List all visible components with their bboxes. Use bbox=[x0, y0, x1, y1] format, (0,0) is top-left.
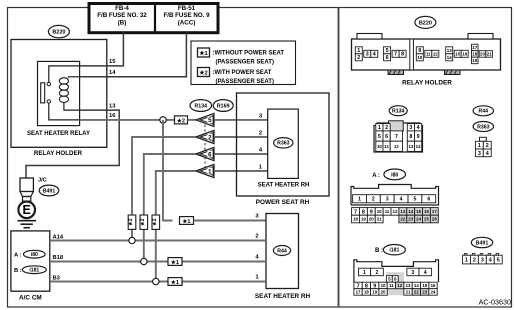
svg-text:19: 19 bbox=[472, 58, 477, 63]
svg-text:13: 13 bbox=[400, 209, 405, 214]
svg-text:5: 5 bbox=[413, 197, 416, 203]
svg-text:J/C: J/C bbox=[38, 178, 47, 184]
svg-text:25: 25 bbox=[424, 217, 429, 222]
wire pin16 feed bbox=[80, 119, 163, 121]
svg-text:4: 4 bbox=[486, 151, 489, 157]
connector oval R169 bbox=[213, 100, 233, 112]
relay internal wiring bbox=[49, 66, 80, 83]
wire B18 to seat heaters pin4 bbox=[50, 261, 266, 263]
svg-text:B :: B : bbox=[14, 268, 22, 274]
svg-text:R134: R134 bbox=[194, 103, 207, 109]
svg-text:FB-51: FB-51 bbox=[178, 5, 196, 12]
wire B3 to seat heaters pin1 bbox=[50, 281, 266, 283]
svg-text:18: 18 bbox=[364, 290, 369, 295]
svg-text:10: 10 bbox=[417, 55, 422, 60]
svg-text:A/C CM: A/C CM bbox=[19, 295, 42, 302]
svg-text:POWER SEAT RH: POWER SEAT RH bbox=[256, 199, 310, 206]
svg-text:i80: i80 bbox=[391, 172, 398, 178]
connector B491 pin map bbox=[463, 255, 471, 264]
connector oval B491 left bbox=[39, 185, 59, 196]
svg-text::WITHOUT POWER SEAT: :WITHOUT POWER SEAT bbox=[213, 51, 285, 57]
svg-text:5: 5 bbox=[386, 48, 389, 54]
svg-text:26: 26 bbox=[432, 217, 437, 222]
svg-text:20: 20 bbox=[381, 290, 386, 295]
svg-text::WITH POWER SEAT: :WITH POWER SEAT bbox=[213, 70, 272, 76]
svg-text:★2: ★2 bbox=[177, 118, 185, 125]
svg-text:(PASSENGER SEAT): (PASSENGER SEAT) bbox=[216, 60, 274, 66]
svg-text:3: 3 bbox=[366, 52, 369, 58]
svg-text:5: 5 bbox=[497, 257, 500, 263]
connector oval B491 right bbox=[471, 237, 492, 247]
svg-text:AC-03630: AC-03630 bbox=[479, 298, 511, 307]
svg-text:B :: B : bbox=[375, 248, 383, 254]
wire pin13 to joint connector bbox=[26, 110, 119, 178]
connector oval i80 left bbox=[24, 250, 46, 258]
wire pin6 branch bbox=[214, 153, 268, 155]
svg-text:R169: R169 bbox=[217, 103, 230, 109]
svg-text:6: 6 bbox=[427, 197, 430, 203]
svg-text:16: 16 bbox=[424, 209, 429, 214]
star1 box on B18 wire bbox=[168, 258, 182, 266]
connector oval R134 bbox=[190, 100, 212, 112]
connector pin 6 triangle bbox=[196, 147, 214, 160]
wire pin5 to seat heater RH pin3 bbox=[214, 119, 268, 121]
svg-text:★1: ★1 bbox=[171, 259, 179, 266]
svg-text:1: 1 bbox=[465, 257, 468, 263]
wire junction drop to R44 pin3 bbox=[163, 120, 173, 221]
svg-text:4: 4 bbox=[424, 270, 427, 276]
svg-text:B220: B220 bbox=[419, 20, 432, 26]
connector pin 2 triangle bbox=[196, 130, 214, 143]
svg-text:1: 1 bbox=[378, 125, 381, 131]
svg-text:4: 4 bbox=[400, 197, 403, 203]
star2 box on branch A bbox=[128, 215, 136, 229]
svg-text:24: 24 bbox=[431, 290, 436, 295]
svg-text:SEAT HEATER RH: SEAT HEATER RH bbox=[255, 293, 311, 300]
svg-text:B220: B220 bbox=[52, 30, 65, 36]
svg-text:12: 12 bbox=[433, 51, 438, 56]
connector pin 1 triangle bbox=[196, 164, 214, 177]
seat heater relay box bbox=[38, 61, 80, 125]
wire pin2 branch bbox=[214, 136, 268, 138]
svg-text:7: 7 bbox=[395, 134, 398, 140]
seat heater RH box (without power seat) bbox=[266, 214, 299, 289]
svg-text:1: 1 bbox=[478, 143, 481, 149]
svg-text:★1: ★1 bbox=[199, 50, 208, 57]
star2 box on wire16 bbox=[175, 116, 188, 124]
svg-text:12: 12 bbox=[393, 209, 398, 214]
svg-text:A :: A : bbox=[372, 173, 380, 179]
connector oval R44 right bbox=[473, 106, 493, 116]
relay holder connector B220 pin map bbox=[352, 39, 501, 70]
svg-text:10: 10 bbox=[377, 209, 382, 214]
svg-text:★2: ★2 bbox=[140, 218, 146, 226]
svg-text:2: 2 bbox=[372, 197, 375, 203]
svg-text:2: 2 bbox=[357, 55, 360, 61]
svg-text:16: 16 bbox=[462, 51, 467, 56]
svg-text:11: 11 bbox=[385, 209, 390, 214]
svg-text:B491: B491 bbox=[476, 240, 489, 246]
svg-text:13: 13 bbox=[447, 48, 452, 53]
svg-text:★2: ★2 bbox=[128, 218, 134, 226]
svg-text:14: 14 bbox=[109, 70, 116, 76]
svg-text:11: 11 bbox=[389, 283, 394, 288]
svg-text:22: 22 bbox=[414, 290, 419, 295]
svg-text:20: 20 bbox=[480, 52, 485, 57]
legend note box bbox=[191, 41, 296, 85]
svg-text:(PASSENGER SEAT): (PASSENGER SEAT) bbox=[216, 79, 274, 85]
svg-text:2: 2 bbox=[255, 234, 258, 240]
svg-text:15: 15 bbox=[109, 59, 116, 65]
star2 box on branch C bbox=[152, 215, 160, 229]
A/C CM box bbox=[11, 231, 50, 291]
wire pin15 to fuse FB-4 bbox=[80, 33, 124, 66]
svg-text:SEAT HEATER RELAY: SEAT HEATER RELAY bbox=[27, 131, 90, 137]
svg-text:B491: B491 bbox=[43, 188, 56, 194]
dashed link between connector pins bbox=[204, 120, 206, 171]
svg-text:24: 24 bbox=[416, 217, 421, 222]
svg-text:5: 5 bbox=[378, 134, 381, 140]
connector i181 pin map bbox=[354, 260, 439, 282]
connector pin 5 triangle bbox=[196, 113, 214, 126]
relay coil bbox=[59, 78, 68, 84]
svg-text:9: 9 bbox=[417, 134, 420, 140]
ground hatching bbox=[18, 220, 37, 222]
connector oval i181 left bbox=[22, 266, 46, 274]
relay contact points bbox=[47, 82, 50, 85]
panel divider bbox=[338, 8, 340, 308]
svg-text:8: 8 bbox=[409, 134, 412, 140]
svg-text:6: 6 bbox=[385, 134, 388, 140]
svg-text:13: 13 bbox=[109, 103, 116, 109]
connector oval B220 right bbox=[415, 16, 436, 28]
svg-text:8: 8 bbox=[401, 52, 404, 58]
relay holder box bbox=[11, 40, 107, 148]
svg-text:1: 1 bbox=[358, 197, 361, 203]
svg-text:14: 14 bbox=[416, 144, 421, 149]
svg-text:i181: i181 bbox=[389, 248, 399, 254]
svg-text:17: 17 bbox=[432, 209, 437, 214]
svg-text:15: 15 bbox=[416, 209, 421, 214]
connector oval R44 bbox=[273, 246, 290, 256]
svg-text:7: 7 bbox=[354, 209, 357, 215]
svg-text:A14: A14 bbox=[53, 234, 64, 240]
svg-text:RELAY HOLDER: RELAY HOLDER bbox=[402, 80, 452, 87]
svg-text:FB-4: FB-4 bbox=[115, 5, 129, 12]
svg-text:3: 3 bbox=[481, 257, 484, 263]
svg-text:9: 9 bbox=[418, 48, 421, 54]
wire pin14 to fuse FB-51 bbox=[80, 33, 187, 77]
svg-text:9: 9 bbox=[370, 209, 373, 215]
seat heater RH inner box bbox=[268, 109, 299, 178]
connector oval R363 right bbox=[473, 122, 493, 132]
svg-text:11: 11 bbox=[426, 51, 431, 56]
svg-text:5: 5 bbox=[388, 277, 391, 282]
svg-text:RELAY HOLDER: RELAY HOLDER bbox=[34, 150, 83, 157]
connector oval R363 bbox=[274, 138, 293, 148]
junction node on wire 16 bbox=[163, 119, 175, 121]
svg-text:★2: ★2 bbox=[152, 218, 158, 226]
connector R134 pin map bbox=[374, 123, 423, 152]
svg-text:4: 4 bbox=[417, 125, 420, 131]
svg-text:21: 21 bbox=[377, 217, 382, 222]
svg-text:R363: R363 bbox=[277, 141, 290, 147]
connector R363/R44 pin map bbox=[480, 137, 487, 141]
svg-text:13: 13 bbox=[406, 283, 411, 288]
svg-text:2: 2 bbox=[473, 257, 476, 263]
svg-text:10: 10 bbox=[377, 144, 382, 149]
svg-text:18: 18 bbox=[472, 52, 477, 57]
svg-text:8: 8 bbox=[362, 209, 365, 215]
svg-text:14: 14 bbox=[414, 283, 419, 288]
svg-text:4: 4 bbox=[373, 52, 376, 58]
star2 box on branch B bbox=[140, 215, 148, 229]
svg-text:3: 3 bbox=[478, 151, 481, 157]
svg-text:12: 12 bbox=[394, 144, 399, 149]
svg-text:R44: R44 bbox=[479, 109, 489, 115]
connector i80 pin map bbox=[351, 185, 439, 206]
wire star1 to R44 pin3 bbox=[180, 217, 194, 225]
svg-text:10: 10 bbox=[381, 283, 386, 288]
svg-text:i80: i80 bbox=[31, 252, 38, 258]
svg-text:F/B FUSE NO. 32: F/B FUSE NO. 32 bbox=[97, 12, 147, 19]
svg-text:20: 20 bbox=[369, 217, 374, 222]
wire pin1 branch bbox=[214, 170, 268, 172]
wire A14 to seat heaters pin2 bbox=[50, 240, 266, 242]
relay contact bar bbox=[41, 83, 45, 103]
svg-text:17: 17 bbox=[356, 290, 361, 295]
svg-text:R363: R363 bbox=[477, 124, 490, 130]
svg-text:11: 11 bbox=[384, 144, 389, 149]
svg-text:19: 19 bbox=[361, 217, 366, 222]
svg-text:E: E bbox=[23, 203, 31, 217]
svg-text:B3: B3 bbox=[53, 275, 61, 281]
svg-text:SEAT HEATER RH: SEAT HEATER RH bbox=[258, 183, 310, 189]
connector oval R134 right bbox=[389, 106, 407, 116]
svg-text:16: 16 bbox=[431, 283, 436, 288]
svg-text:★2: ★2 bbox=[199, 70, 207, 77]
svg-text:2: 2 bbox=[376, 270, 379, 276]
svg-text:1: 1 bbox=[357, 48, 360, 54]
star1 box on B3 wire bbox=[168, 278, 182, 286]
svg-text:(ACC): (ACC) bbox=[178, 19, 196, 26]
svg-text:22: 22 bbox=[400, 217, 405, 222]
svg-text:(B): (B) bbox=[118, 19, 127, 26]
svg-text:23: 23 bbox=[408, 217, 413, 222]
svg-text:2: 2 bbox=[259, 131, 262, 137]
fuse box FB-4 / FB-51 bbox=[89, 4, 218, 33]
svg-text:2: 2 bbox=[486, 143, 489, 149]
svg-text:3: 3 bbox=[386, 197, 389, 203]
svg-text:6: 6 bbox=[394, 277, 397, 282]
svg-text:i181: i181 bbox=[29, 268, 39, 274]
svg-text:19: 19 bbox=[372, 290, 377, 295]
svg-text:21: 21 bbox=[406, 290, 411, 295]
connector oval B220 bbox=[48, 25, 69, 37]
svg-text:★1: ★1 bbox=[171, 279, 179, 286]
joint connector J/C B491 bbox=[20, 178, 33, 192]
svg-text:17: 17 bbox=[472, 45, 477, 50]
svg-text:12: 12 bbox=[397, 283, 402, 288]
svg-text:7: 7 bbox=[394, 52, 397, 58]
svg-text:B18: B18 bbox=[53, 255, 64, 261]
svg-text:R44: R44 bbox=[277, 248, 287, 254]
svg-text:14: 14 bbox=[447, 55, 452, 60]
svg-text:21: 21 bbox=[487, 52, 492, 57]
svg-text:R134: R134 bbox=[392, 109, 405, 115]
svg-text:15: 15 bbox=[455, 51, 460, 56]
svg-text:A :: A : bbox=[14, 252, 22, 258]
svg-text:18: 18 bbox=[353, 217, 358, 222]
svg-text:16: 16 bbox=[109, 113, 116, 119]
svg-text:1: 1 bbox=[363, 270, 366, 276]
svg-text:3: 3 bbox=[409, 125, 412, 131]
svg-text:15: 15 bbox=[422, 283, 427, 288]
svg-text:6: 6 bbox=[386, 55, 389, 61]
svg-text:13: 13 bbox=[408, 144, 413, 149]
svg-text:14: 14 bbox=[408, 209, 413, 214]
svg-text:★1: ★1 bbox=[182, 218, 190, 225]
svg-text:4: 4 bbox=[489, 257, 492, 263]
svg-text:23: 23 bbox=[422, 290, 427, 295]
svg-text:3: 3 bbox=[412, 270, 415, 276]
ground symbol E bbox=[18, 202, 35, 219]
power seat RH box bbox=[237, 93, 330, 196]
svg-text:F/B FUSE NO. 9: F/B FUSE NO. 9 bbox=[163, 12, 210, 19]
svg-text:2: 2 bbox=[385, 125, 388, 131]
